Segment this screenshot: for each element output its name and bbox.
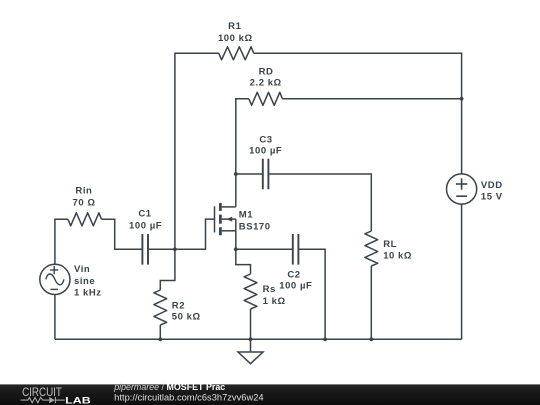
svg-text:100 µF: 100 µF [279, 281, 312, 292]
resistor R2 [154, 290, 167, 325]
wire R2 bottom [159, 325, 161, 339]
wire Vin bottom [54, 295, 56, 340]
svg-text:100 µF: 100 µF [249, 146, 282, 157]
svg-text:http://circuitlab.com/c6s3h7zv: http://circuitlab.com/c6s3h7zvv6w24 [114, 392, 263, 402]
wire Vin top to Rin [55, 219, 68, 264]
svg-text:LAB: LAB [65, 395, 91, 405]
wire C3 right to RL [268, 174, 371, 231]
svg-text:1 kHz: 1 kHz [74, 288, 102, 299]
resistor RD [249, 92, 283, 105]
svg-text:VDD: VDD [481, 180, 503, 191]
transistor M1 (NMOS BS170) [215, 203, 236, 249]
ground [250, 339, 252, 352]
svg-text:Vin: Vin [74, 264, 90, 275]
resistor Rin [68, 213, 102, 226]
svg-text:R1: R1 [228, 21, 241, 32]
svg-text:C1: C1 [138, 209, 151, 220]
node RL/ground rail junction [369, 337, 373, 341]
svg-text:70 Ω: 70 Ω [72, 198, 95, 209]
wire VDD rail upper [461, 99, 463, 174]
node ground junction [249, 337, 253, 341]
capacitor C1 [141, 234, 143, 265]
voltage source VDD [447, 174, 477, 204]
svg-text:M1: M1 [239, 210, 253, 221]
wire R1 right to VDD rail [254, 53, 462, 99]
svg-text:C3: C3 [259, 134, 272, 145]
svg-text:10 kΩ: 10 kΩ [383, 251, 412, 262]
wire source to Rs [236, 249, 251, 274]
svg-text:Rin: Rin [75, 185, 92, 196]
resistor R1 [219, 47, 254, 60]
wire source to C2 [236, 248, 293, 250]
svg-text:RD: RD [259, 67, 274, 78]
svg-text:50 kΩ: 50 kΩ [172, 312, 201, 323]
wire VDD rail lower [461, 204, 463, 339]
svg-text:sine: sine [74, 276, 95, 287]
wire RL bottom [370, 266, 372, 339]
node source junction [234, 247, 238, 251]
logo resistor-diode squiggle [21, 397, 65, 403]
wire Rs bottom [250, 309, 252, 339]
wire C2 right down [298, 249, 325, 339]
wire RD left + drain rail [236, 99, 249, 207]
wire C3 left [236, 173, 263, 175]
svg-text:15 V: 15 V [481, 191, 503, 202]
wire R1 left + left rail [175, 53, 219, 249]
svg-text:CIRCUIT: CIRCUIT [22, 385, 62, 399]
capacitor C3 [262, 159, 264, 190]
node R2/ground rail junction [158, 337, 162, 341]
svg-text:1 kΩ: 1 kΩ [263, 296, 286, 307]
svg-text:2.2 kΩ: 2.2 kΩ [250, 78, 282, 89]
svg-text:R2: R2 [172, 300, 185, 311]
capacitor C2 [292, 234, 294, 265]
voltage source Vin [40, 264, 70, 294]
svg-text:C2: C2 [287, 269, 300, 280]
wire bottom rail [55, 338, 462, 340]
wire Rin to C1 [102, 219, 143, 249]
node C3 tap junction [234, 172, 238, 176]
node C2/ground rail junction [323, 337, 327, 341]
resistor RL [365, 231, 378, 266]
footer bar [0, 384, 540, 405]
svg-text:Rs: Rs [263, 284, 276, 295]
node gate/bias junction [173, 247, 177, 251]
svg-text:100 kΩ: 100 kΩ [218, 33, 253, 44]
svg-text:100 µF: 100 µF [129, 221, 162, 232]
resistor Rs [244, 274, 257, 309]
wire C1 to gate jog [148, 219, 215, 249]
svg-text:RL: RL [383, 239, 397, 250]
wire junction to R2 [160, 249, 175, 290]
wire RD right [282, 98, 461, 100]
node RD/R1/VDD junction [460, 97, 464, 101]
svg-text:BS170: BS170 [239, 221, 271, 232]
svg-text:pipermaree / MOSFET Prac: pipermaree / MOSFET Prac [113, 382, 225, 392]
